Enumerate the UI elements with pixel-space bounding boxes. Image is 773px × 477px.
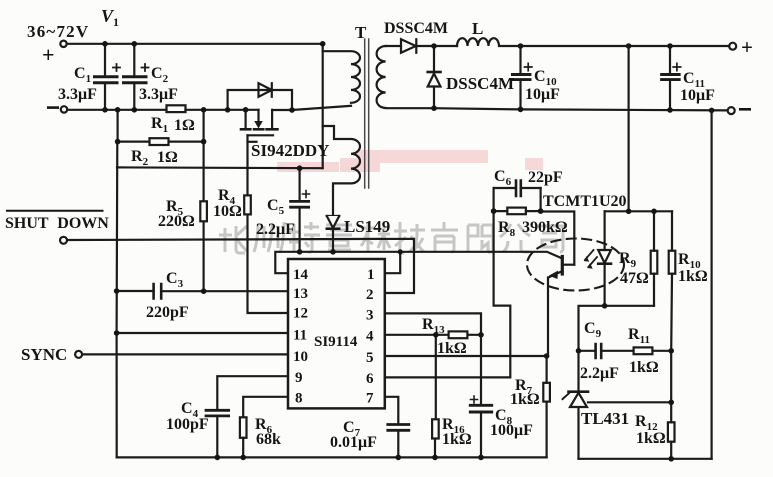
junction (435,457.4) xyxy=(432,455,438,461)
junction (243.2,457.4) xyxy=(240,455,246,461)
watermark 杭州将睿科技有限公司 (gray CJK, drawn as stroke shapes) xyxy=(219,222,563,253)
wire pin 1 riser xyxy=(385,252,400,273)
svg-text:1Ω: 1Ω xyxy=(174,117,195,134)
wire C4 to bottom rail xyxy=(216,417,218,458)
resistor R13 xyxy=(449,331,468,338)
resistor R16 xyxy=(432,419,439,438)
junction (117.6,141.6) xyxy=(115,139,121,145)
wire VCC rail above IC (pin14 loop to C6/R8 node) xyxy=(275,252,562,273)
junction dots right section xyxy=(491,208,674,461)
resistor R9 xyxy=(651,251,658,274)
junction (578.5,350.8) xyxy=(576,348,582,354)
svg-text:L: L xyxy=(472,19,483,38)
junction (292,110) xyxy=(289,107,295,113)
wire minus rail left xyxy=(67,109,166,111)
wire pin 11 xyxy=(117,332,288,334)
junction (604.6,305.8) xyxy=(602,303,608,309)
svg-text:100μF: 100μF xyxy=(490,422,533,439)
junction dots middle section xyxy=(114,249,550,460)
wire R4 vertical (gate wire down to pin 12) xyxy=(248,168,289,313)
svg-text:3: 3 xyxy=(366,308,374,324)
junction (671.2,458.8) xyxy=(668,456,674,462)
junction (134.3,43.8) xyxy=(132,41,138,47)
svg-text:36~72V: 36~72V xyxy=(27,22,89,41)
svg-text:68k: 68k xyxy=(256,431,281,448)
wire R6 to bottom rail xyxy=(242,438,244,458)
transistor Q1 SI942DDY MOSFET xyxy=(241,110,277,168)
resistor R1 xyxy=(167,105,186,112)
svg-text:47Ω: 47Ω xyxy=(620,270,649,287)
wire R12 vertical xyxy=(670,351,672,459)
wire C6/R8 right node to phototransistor collector xyxy=(541,188,575,265)
junction (670,46) xyxy=(667,43,673,49)
capacitor C5 xyxy=(291,168,310,252)
svg-text:DSSC4M: DSSC4M xyxy=(384,20,448,37)
junction (322.7,43.8) xyxy=(320,41,326,47)
junction (520.5,46) xyxy=(518,43,524,49)
svg-text:T: T xyxy=(355,23,367,42)
output + terminal xyxy=(729,43,736,50)
diode LS149 (aux rectifier) xyxy=(327,216,339,252)
svg-text:R13: R13 xyxy=(422,316,445,336)
svg-text:TCMT1U20: TCMT1U20 xyxy=(543,193,627,210)
SYNC terminal xyxy=(75,351,82,358)
junction (670,110) xyxy=(667,107,673,113)
wire secondary top to diode xyxy=(386,45,401,47)
wire pin 6 riser to VCC rail xyxy=(385,252,511,378)
svg-text:10μF: 10μF xyxy=(680,87,715,104)
svg-text:SI942DDY: SI942DDY xyxy=(251,141,329,160)
wire C9 / R11 row xyxy=(579,350,672,352)
svg-text:7: 7 xyxy=(366,391,374,407)
svg-text:SHUT DOWN: SHUT DOWN xyxy=(5,215,109,232)
svg-text:2: 2 xyxy=(366,287,374,303)
svg-text:R11: R11 xyxy=(628,326,650,346)
wire pin13 / C3 xyxy=(117,290,288,292)
junction (435.8,334.8) xyxy=(433,332,439,338)
junction (671.2,350.8) xyxy=(668,348,674,354)
wire TL431 ref row xyxy=(588,401,671,403)
svg-text:V1: V1 xyxy=(101,6,119,29)
junction (493.6,211.1) xyxy=(491,208,497,214)
wire bottom ground rail xyxy=(117,456,547,458)
junction (105,43.8) xyxy=(102,41,108,47)
resistor R12 xyxy=(668,422,675,441)
diode (snubber, across MOSFET) xyxy=(259,83,272,97)
snubber diode loop wire xyxy=(228,90,292,110)
input + terminal xyxy=(60,41,66,47)
inductor L xyxy=(457,38,729,46)
junction (398.3,457.4) xyxy=(396,455,402,461)
resistor R11 xyxy=(634,347,653,354)
transformer T primary winding xyxy=(323,51,360,103)
wire C6/R8 left node xyxy=(493,188,495,252)
output - terminal xyxy=(728,107,735,114)
junction (299.6,251.8) xyxy=(297,249,303,255)
svg-text:C3: C3 xyxy=(166,270,184,290)
svg-text:8: 8 xyxy=(295,391,303,407)
junction (628.6,211.3) xyxy=(626,209,632,215)
wire R8 row xyxy=(494,210,541,212)
junction (105,109.8) xyxy=(102,107,108,113)
svg-text:3.3μF: 3.3μF xyxy=(139,86,178,103)
junction (117.6,109.8) xyxy=(115,107,121,113)
svg-text:5: 5 xyxy=(366,350,374,366)
pink scan smudges xyxy=(277,150,543,172)
capacitor C10 xyxy=(512,46,532,109)
wire primary top feed (top rail down to winding) xyxy=(322,44,324,168)
transformer T secondary winding xyxy=(377,46,434,108)
wire pin 3 xyxy=(385,313,481,334)
wire SYNC to pin 10 xyxy=(82,353,288,355)
svg-text:SI9114: SI9114 xyxy=(314,334,358,350)
svg-text:22pF: 22pF xyxy=(528,169,563,186)
junction (203.6,291.2) xyxy=(201,288,207,294)
overline of SHUT DOWN xyxy=(6,210,104,212)
junction (299.6,168.2) xyxy=(297,165,303,171)
wire R10 vertical down to C9 row xyxy=(670,211,673,350)
capacitor C3 xyxy=(154,284,162,298)
svg-text:C2: C2 xyxy=(151,65,169,85)
wire output minus rail xyxy=(434,108,727,110)
junction (711.6,110.4) xyxy=(709,108,715,114)
svg-text:C1: C1 xyxy=(74,65,91,85)
svg-text:4: 4 xyxy=(366,329,374,345)
junction (116.6,333) xyxy=(114,330,120,336)
wire R7 to bottom rail xyxy=(545,356,547,457)
junction (134.3,109.8) xyxy=(132,107,138,113)
resistor R6 xyxy=(240,417,247,438)
svg-text:13: 13 xyxy=(293,286,308,302)
junction (217.3,457.4) xyxy=(215,455,221,461)
SHUT DOWN terminal xyxy=(60,237,67,244)
junction (628.6,46) xyxy=(626,43,632,49)
wire R9 vertical xyxy=(653,211,655,305)
IC U1 SI9114 xyxy=(288,259,385,408)
svg-text:1Ω: 1Ω xyxy=(157,149,178,166)
junction (245.6,109.8) xyxy=(243,107,249,113)
transformer T auxiliary winding xyxy=(323,126,360,216)
resistor R2 xyxy=(150,138,169,145)
junction (671.2,402.3) xyxy=(668,400,674,406)
svg-text:390kΩ: 390kΩ xyxy=(522,219,568,236)
svg-text:2.2μF: 2.2μF xyxy=(580,365,619,382)
wire right rail from output minus xyxy=(710,110,712,458)
svg-text:C10: C10 xyxy=(534,68,557,88)
resistor R10 xyxy=(669,251,676,274)
svg-text:1: 1 xyxy=(367,267,375,283)
svg-text:14: 14 xyxy=(293,267,309,283)
junction (654,211.3) xyxy=(651,209,657,215)
svg-text:+: + xyxy=(42,42,55,67)
svg-text:9: 9 xyxy=(295,370,303,386)
svg-text:220Ω: 220Ω xyxy=(158,213,195,230)
wire bottom right rail xyxy=(579,458,712,460)
capacitor C11 xyxy=(662,46,681,110)
junction (434,108.2) xyxy=(431,105,437,111)
capacitor C4 xyxy=(206,410,229,416)
wire pin 4 / R13 net xyxy=(385,334,481,336)
resistor R7 xyxy=(543,383,550,402)
wire opto top row xyxy=(605,210,672,212)
svg-text:1kΩ: 1kΩ xyxy=(437,340,467,357)
wire opto feed from output rail xyxy=(627,46,629,211)
wire top-left rail xyxy=(67,43,323,45)
svg-text:1kΩ: 1kΩ xyxy=(678,268,708,285)
capacitor C2 xyxy=(124,44,149,110)
svg-text:SYNC: SYNC xyxy=(21,345,67,364)
capacitor C9 xyxy=(596,344,602,358)
LED (opto emitter diode) xyxy=(585,211,612,305)
svg-text:220pF: 220pF xyxy=(146,304,189,321)
capacitor C7 xyxy=(388,425,409,431)
junction dots top section xyxy=(102,41,714,171)
resistor R5 xyxy=(200,201,207,221)
svg-text:LS149: LS149 xyxy=(344,217,390,236)
wire pin 5 to R7 node xyxy=(385,355,547,357)
svg-text:10μF: 10μF xyxy=(525,86,560,103)
junction (116.6,291) xyxy=(114,288,120,294)
wire SHUT DOWN to pin 2 xyxy=(67,239,414,293)
svg-text:10: 10 xyxy=(293,349,308,365)
svg-text:2.2μF: 2.2μF xyxy=(256,221,295,238)
svg-text:C6: C6 xyxy=(494,168,512,188)
wire pin 9 to C4 xyxy=(217,376,288,409)
wire pin 8 to R6 xyxy=(243,397,288,418)
label output minus (dash) xyxy=(739,108,751,111)
wire LED/R9 bottom row to TL431 rail xyxy=(579,306,655,351)
svg-text:+: + xyxy=(741,35,753,59)
junction (546.6,356) xyxy=(544,353,550,359)
svg-text:3.3μF: 3.3μF xyxy=(58,86,97,103)
svg-text:6: 6 xyxy=(366,371,374,387)
capacitor C1 xyxy=(95,44,121,110)
junction (540.6,211.1) xyxy=(538,208,544,214)
svg-text:1kΩ: 1kΩ xyxy=(629,359,659,376)
svg-text:0.01μF: 0.01μF xyxy=(330,434,377,451)
junction (434,46) xyxy=(431,43,437,49)
svg-text:C5: C5 xyxy=(267,197,285,217)
wire drain rail to transformer xyxy=(272,106,351,110)
svg-text:1kΩ: 1kΩ xyxy=(636,430,666,447)
junction (333,251.8) xyxy=(330,249,336,255)
resistor R8 xyxy=(507,208,526,215)
transistor (opto NPN) xyxy=(548,257,574,357)
diode D1 DSSC4M (series) xyxy=(401,39,416,53)
wire R5 vertical (R1 right junction down to pin13 wire) xyxy=(203,110,205,292)
capacitor C8 xyxy=(470,335,491,458)
input - terminal xyxy=(61,106,67,112)
junction (400.2,251.8) xyxy=(398,249,403,254)
svg-text:R1: R1 xyxy=(151,115,168,135)
diode D2 DSSC4M (freewheel) xyxy=(428,46,441,108)
svg-text:R2: R2 xyxy=(131,148,149,168)
svg-text:DSSC4M: DSSC4M xyxy=(446,74,514,93)
TL431 shunt regulator xyxy=(563,392,589,407)
wire TL431 cathode rail xyxy=(577,351,579,459)
svg-text:C9: C9 xyxy=(584,320,602,340)
junction (203.6,109.8) xyxy=(201,107,207,113)
wire diode to L xyxy=(416,45,457,47)
wire pin 7 to C7 xyxy=(385,397,399,424)
svg-text:R9: R9 xyxy=(619,250,637,270)
junction (203.6,141.6) xyxy=(201,139,207,145)
capacitor C6 xyxy=(494,181,541,197)
svg-text:10Ω: 10Ω xyxy=(213,203,242,220)
junction (481,334.8) xyxy=(478,332,484,338)
transformer core xyxy=(365,39,369,188)
wire R16 vertical xyxy=(434,335,437,458)
junction (520.5,109.4) xyxy=(518,107,524,113)
resistor R4 xyxy=(244,195,251,214)
junction (227.6,109.8) xyxy=(225,107,231,113)
junction (481,457.4) xyxy=(478,455,484,461)
svg-text:11: 11 xyxy=(293,328,307,344)
svg-text:12: 12 xyxy=(293,306,308,322)
wire R2 parallel loop xyxy=(118,110,204,142)
wire gate drive (from left bus to source node) xyxy=(117,166,323,169)
svg-text:TL431: TL431 xyxy=(581,409,629,428)
svg-text:100pF: 100pF xyxy=(166,416,209,433)
wire C7 to bottom rail xyxy=(397,431,399,457)
wire minus rail to mosfet xyxy=(186,109,259,111)
svg-text:1kΩ: 1kΩ xyxy=(442,431,472,448)
label input minus (dash) xyxy=(47,106,59,109)
svg-text:1kΩ: 1kΩ xyxy=(510,391,540,408)
wire left vertical bus (input minus down to bottom rail) xyxy=(115,142,118,458)
optocoupler U2 TCMT1U20 dashed outline xyxy=(527,239,624,291)
